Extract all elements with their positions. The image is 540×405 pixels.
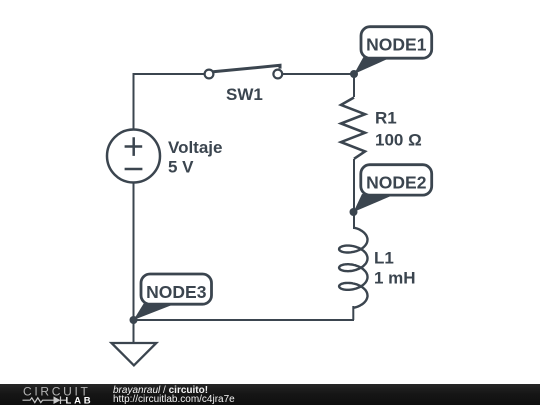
wire resistor to node2 — [353, 159, 355, 212]
svg-text:100 Ω: 100 Ω — [375, 131, 422, 150]
CircuitLab logo — [0, 384, 100, 405]
wire inductor to bottom — [352, 306, 354, 320]
wire top-left horizontal — [133, 73, 206, 75]
svg-text:SW1: SW1 — [226, 85, 263, 104]
svg-text:R1: R1 — [375, 109, 397, 128]
resistor R1 — [341, 98, 365, 159]
svg-text:L1: L1 — [374, 249, 394, 268]
node NODE1 dot — [350, 70, 358, 78]
footer bar — [0, 384, 540, 405]
wire node2 to inductor — [353, 212, 355, 229]
svg-text:NODE3: NODE3 — [146, 282, 207, 302]
wire left vertical (source top) — [133, 73, 135, 129]
node label NODE1 — [354, 27, 432, 74]
ground — [112, 320, 157, 365]
svg-text:LAB: LAB — [66, 396, 94, 405]
node label NODE2 — [354, 165, 432, 212]
svg-text:1 mH: 1 mH — [374, 269, 416, 288]
label R1 100 ohm — [375, 109, 422, 150]
svg-text:NODE1: NODE1 — [366, 35, 427, 55]
label Voltaje 5 V — [168, 138, 222, 177]
svg-text:5 V: 5 V — [168, 158, 194, 177]
node NODE2 dot — [350, 208, 358, 216]
label SW1 — [226, 85, 263, 104]
svg-text:Voltaje: Voltaje — [168, 138, 222, 157]
wire node1 to resistor — [353, 74, 355, 97]
switch SW1 — [205, 65, 283, 78]
wire switch to node1 — [282, 73, 354, 75]
voltage source V1 — [107, 130, 160, 183]
footer text — [113, 386, 208, 396]
node label NODE3 — [134, 274, 212, 320]
svg-text:NODE2: NODE2 — [366, 172, 427, 192]
label L1 1 mH — [374, 249, 416, 288]
wire left vertical (source bottom) — [133, 183, 135, 320]
wire bottom horizontal — [134, 319, 355, 321]
node NODE3 dot — [130, 316, 138, 324]
inductor L1 — [339, 228, 367, 308]
